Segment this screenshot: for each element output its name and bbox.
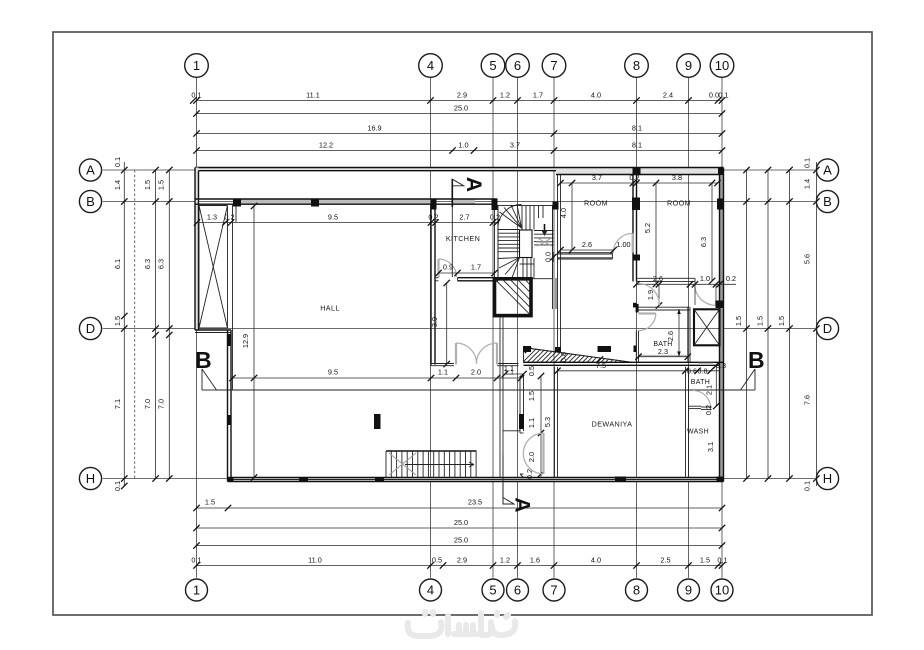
svg-text:6.3: 6.3 xyxy=(143,259,152,269)
dimension row bottom-3 (25.0) xyxy=(193,536,725,549)
svg-text:B: B xyxy=(823,194,832,209)
svg-text:1.4: 1.4 xyxy=(113,180,122,190)
room label WASH xyxy=(687,429,709,436)
svg-text:A: A xyxy=(823,162,832,177)
room label ROOM left xyxy=(584,199,608,208)
svg-text:1.0: 1.0 xyxy=(700,274,710,283)
svg-text:D: D xyxy=(823,321,832,336)
staircase (spiral with landing) xyxy=(498,204,554,278)
column B-wall 1 xyxy=(233,199,241,207)
straight staircase at hall bottom xyxy=(386,451,477,478)
kitchen right wall (grid 5) xyxy=(495,210,499,278)
dimension 5.2 vertical (grid8) xyxy=(643,180,659,287)
wall jog at grid D left xyxy=(195,330,231,333)
room2 bottom wall xyxy=(637,278,696,281)
svg-text:1.5: 1.5 xyxy=(777,316,786,326)
section marker B left xyxy=(195,347,217,390)
svg-text:A: A xyxy=(462,177,485,192)
ramp column left xyxy=(523,346,531,352)
svg-text:HALL: HALL xyxy=(320,304,340,313)
svg-text:1.5: 1.5 xyxy=(527,391,536,401)
svg-text:1.00: 1.00 xyxy=(616,240,630,249)
svg-text:6.3: 6.3 xyxy=(157,259,166,269)
dimension rooms top (3.7 0.2 3.8) xyxy=(557,173,720,186)
dimension 1.9 vertical xyxy=(646,281,662,309)
corridor double door xyxy=(520,431,544,478)
column grid5-B xyxy=(492,199,498,211)
hall interior dim 12.9 vertical xyxy=(241,203,257,481)
dimension 2.1 rotated xyxy=(705,385,714,395)
svg-text:7: 7 xyxy=(550,58,557,73)
grid line D (horizontal) xyxy=(103,328,815,330)
svg-text:2.6: 2.6 xyxy=(666,331,675,341)
ramp column right xyxy=(598,346,612,352)
svg-text:8.1: 8.1 xyxy=(632,141,642,150)
svg-text:10: 10 xyxy=(715,58,729,73)
svg-text:A: A xyxy=(511,497,534,512)
svg-text:1.5: 1.5 xyxy=(700,556,710,565)
svg-text:3.9: 3.9 xyxy=(430,317,439,327)
dimension 5.3 vertical xyxy=(543,367,555,427)
corridor door arc at grid 8 xyxy=(639,284,660,306)
room1 door arc (1.00) xyxy=(613,233,633,252)
grid bubble D left xyxy=(79,317,101,339)
svg-text:1.5: 1.5 xyxy=(143,180,152,190)
column bottom 4 xyxy=(717,477,724,483)
svg-text:H: H xyxy=(823,471,832,486)
dimension 6.3 vertical (room2) xyxy=(699,180,715,284)
column grid8 cap xyxy=(633,255,640,261)
dimension 3.9 vertical (grid4 lower) xyxy=(430,280,450,367)
grid bubble H right xyxy=(816,467,838,489)
grid bubble 5 top xyxy=(481,54,505,78)
dimension row bottom-1 (1.5 23.5) xyxy=(193,498,725,512)
exterior wall bottom (grid H) xyxy=(228,478,724,482)
dimension labels corridor right (1.5 1.1 2.0 0.2) xyxy=(525,391,536,479)
dimension column left-1 (0.1 1.4 6.1 1.5 7.1) xyxy=(113,157,128,491)
grid line 7 (vertical) xyxy=(553,78,555,578)
svg-text:0.2: 0.2 xyxy=(224,213,234,222)
section line B-B (horizontal) xyxy=(217,389,741,391)
drawing sheet border frame xyxy=(53,32,872,615)
column grid4-B xyxy=(431,199,437,210)
svg-text:9.5: 9.5 xyxy=(328,368,338,377)
bath1 top wall xyxy=(636,307,689,310)
room label KITCHEN xyxy=(446,234,480,243)
svg-text:6.3: 6.3 xyxy=(699,237,708,247)
grid line 5 (vertical) xyxy=(492,78,494,578)
dimension row top-3 (16.9 8.1) xyxy=(193,124,725,137)
svg-text:2.1: 2.1 xyxy=(705,385,714,395)
svg-text:1: 1 xyxy=(193,583,200,598)
room label ROOM right xyxy=(667,199,691,208)
left shaft with X cross xyxy=(199,206,228,329)
dimension room1 width 2.6 xyxy=(557,240,630,253)
svg-text:11.1: 11.1 xyxy=(306,91,320,100)
svg-text:7.6: 7.6 xyxy=(803,395,812,405)
svg-text:1.6: 1.6 xyxy=(530,556,540,565)
kitchen door arc xyxy=(439,259,457,277)
grid bubble H left xyxy=(79,467,101,489)
svg-text:6.1: 6.1 xyxy=(113,259,122,269)
dimension dewaniya 7.5 xyxy=(554,361,719,374)
dimension row bottom-4 (11.0 0.5 2.9 1.2 1.6 4.0 2.5 1.5) xyxy=(191,556,727,569)
dimension line corridor right xyxy=(538,373,544,478)
dimension row bottom-2 (25.0) xyxy=(193,518,725,531)
svg-text:1.5: 1.5 xyxy=(756,316,765,326)
stair right wall (grid 7) xyxy=(553,206,557,310)
svg-text:12.2: 12.2 xyxy=(319,141,333,150)
section marker B right xyxy=(741,347,765,390)
svg-text:5.6: 5.6 xyxy=(803,254,812,264)
grid line 9 (vertical) xyxy=(688,78,690,578)
svg-text:0.1: 0.1 xyxy=(803,481,812,491)
column left-lower xyxy=(227,415,232,425)
svg-text:2.4: 2.4 xyxy=(663,91,673,100)
svg-text:4.0: 4.0 xyxy=(591,556,601,565)
dimension hall south (9.5 1.1 2.0 1.1) xyxy=(229,368,524,382)
svg-text:0.6: 0.6 xyxy=(559,352,568,362)
dimension row top-1 (11.1 2.9 1.2 1.7 4.0 2.4) xyxy=(190,91,728,104)
exterior wall right (grid 10) xyxy=(720,168,724,482)
grid bubble B left xyxy=(79,190,101,212)
grid bubble D right xyxy=(816,317,838,339)
svg-text:2.9: 2.9 xyxy=(457,91,467,100)
svg-text:23.5: 23.5 xyxy=(468,498,482,507)
corridor wall upper (x520) xyxy=(520,376,524,431)
svg-text:1.9: 1.9 xyxy=(646,290,655,300)
dewaniya left wall (grid 7) xyxy=(555,367,558,478)
svg-text:0.1: 0.1 xyxy=(113,157,122,167)
svg-text:6: 6 xyxy=(514,583,521,598)
svg-text:B: B xyxy=(195,347,212,373)
svg-text:7.5: 7.5 xyxy=(596,361,606,370)
column grid8-A xyxy=(633,167,641,175)
svg-text:1.1: 1.1 xyxy=(504,364,514,373)
svg-text:0.2: 0.2 xyxy=(726,274,736,283)
dimension column left-3 (1.5 6.3 7.0) xyxy=(157,167,173,482)
column left-D xyxy=(227,334,232,346)
rooms left wall (grid 7 side) xyxy=(558,175,561,353)
svg-text:0.1: 0.1 xyxy=(718,91,728,100)
hall south wall segments xyxy=(431,364,519,366)
kitchen left wall (grid 4) xyxy=(431,204,435,364)
svg-text:1.4: 1.4 xyxy=(803,179,812,189)
svg-text:1.2: 1.2 xyxy=(500,556,510,565)
svg-text:12.9: 12.9 xyxy=(241,334,250,348)
svg-text:5.2: 5.2 xyxy=(643,223,652,233)
interior wall grid B with window bands xyxy=(195,199,497,204)
svg-text:ROOM: ROOM xyxy=(584,199,608,208)
svg-text:1.7: 1.7 xyxy=(471,263,481,272)
svg-text:3.1: 3.1 xyxy=(706,442,715,452)
dimension 1.1 left of wall xyxy=(502,364,527,377)
dimension 0.2 rotated wash xyxy=(704,405,713,415)
svg-text:4.0: 4.0 xyxy=(559,208,568,218)
bath1 left wall xyxy=(636,331,638,363)
dimension column right-3 (1.5) xyxy=(777,167,793,482)
corridor lower wall (x503) xyxy=(500,316,503,504)
svg-text:2.0: 2.0 xyxy=(471,368,481,377)
room label BATH 1 xyxy=(653,341,672,348)
svg-text:1.5: 1.5 xyxy=(113,316,122,326)
svg-text:0.2: 0.2 xyxy=(704,405,713,415)
svg-text:7.1: 7.1 xyxy=(113,399,122,409)
grid line 10 (vertical) xyxy=(721,78,723,578)
dimension column right-4 (0.1 1.4 5.6 7.6 0.1) xyxy=(803,158,820,491)
svg-text:1.1: 1.1 xyxy=(527,418,536,428)
grid bubble A right xyxy=(816,159,838,181)
dimension 0.6 0.8 labels xyxy=(687,361,726,375)
svg-text:3.7: 3.7 xyxy=(510,141,520,150)
svg-text:2.9: 2.9 xyxy=(457,556,467,565)
grid line B (horizontal) xyxy=(103,201,815,203)
svg-text:1.5: 1.5 xyxy=(157,180,166,190)
svg-text:B: B xyxy=(748,347,765,373)
bath1 right wall xyxy=(688,307,690,362)
grid line 6 (vertical) xyxy=(517,78,519,578)
grid bubble A left xyxy=(79,159,101,181)
dimension column left-2 (1.5 6.3 7.0) xyxy=(143,167,159,482)
svg-text:1.7: 1.7 xyxy=(533,91,543,100)
grid bubble 7 bottom xyxy=(543,579,565,601)
dimension 0.0 at stair xyxy=(544,252,557,262)
bath2/wash divider wall xyxy=(688,406,701,408)
svg-text:8: 8 xyxy=(633,58,640,73)
svg-text:4: 4 xyxy=(427,583,434,598)
svg-text:1.1: 1.1 xyxy=(438,368,448,377)
grid line 8 (vertical) xyxy=(636,78,638,578)
room label HALL xyxy=(320,304,340,313)
svg-text:0.1: 0.1 xyxy=(191,91,201,100)
bath1 left wall bottom cap xyxy=(634,346,637,353)
bath1 door arc xyxy=(639,313,656,330)
svg-text:25.0: 25.0 xyxy=(454,518,468,527)
svg-text:0.1: 0.1 xyxy=(113,481,122,491)
dimension corridor (2.6 1.0 0.2) xyxy=(633,274,736,288)
room label BATH 2 xyxy=(691,379,710,386)
wash left wall xyxy=(686,367,689,478)
svg-text:0.0: 0.0 xyxy=(544,252,553,262)
grid line A (horizontal) xyxy=(103,169,815,171)
exterior wall top (grid A) xyxy=(195,168,724,175)
svg-text:9: 9 xyxy=(685,58,692,73)
svg-text:H: H xyxy=(86,471,95,486)
hall center column xyxy=(374,414,381,429)
svg-text:0.5: 0.5 xyxy=(527,366,536,376)
svg-text:2.3: 2.3 xyxy=(658,347,668,356)
svg-text:11.0: 11.0 xyxy=(308,556,322,565)
column B-wall 2 xyxy=(311,199,319,207)
column grid8-B xyxy=(632,198,640,211)
hall left wall (below B) xyxy=(233,204,237,390)
svg-text:4.0: 4.0 xyxy=(591,91,601,100)
svg-text:1.5: 1.5 xyxy=(205,498,215,507)
svg-text:0.9: 0.9 xyxy=(443,263,453,272)
room1 bottom wall xyxy=(558,253,613,259)
kitchen bottom wall xyxy=(435,278,498,281)
ramp hatched wedge xyxy=(518,347,648,367)
grid bubble 10 bottom xyxy=(711,579,733,601)
column grid7 at ramp xyxy=(555,347,561,352)
svg-text:0.8: 0.8 xyxy=(697,366,707,375)
grid bubble 9 bottom xyxy=(678,579,700,601)
column grid10-B xyxy=(717,199,724,210)
svg-text:0.3: 0.3 xyxy=(716,361,726,370)
svg-text:1.0: 1.0 xyxy=(458,141,468,150)
svg-text:1.5: 1.5 xyxy=(734,316,743,326)
svg-text:0.5: 0.5 xyxy=(432,556,442,565)
watermark Arabic logo xyxy=(408,612,516,636)
svg-text:2.0: 2.0 xyxy=(527,452,536,462)
svg-text:2.7: 2.7 xyxy=(459,213,469,222)
elevator shaft with hatch xyxy=(495,279,532,316)
svg-text:10: 10 xyxy=(715,583,729,598)
grid bubble 10 top xyxy=(710,54,734,78)
grid bubble 5 bottom xyxy=(482,579,504,601)
svg-text:3.7: 3.7 xyxy=(592,173,602,182)
svg-text:2.6: 2.6 xyxy=(582,240,592,249)
section line A (vertical) xyxy=(451,207,453,277)
svg-text:5: 5 xyxy=(489,583,496,598)
exterior wall left lower (D to H) xyxy=(228,330,232,482)
svg-text:25.0: 25.0 xyxy=(454,104,468,113)
dimension kitchen width (0.2 2.7 0.2) xyxy=(428,213,500,222)
svg-text:16.9: 16.9 xyxy=(367,124,381,133)
svg-text:9: 9 xyxy=(685,583,692,598)
svg-text:7: 7 xyxy=(550,583,557,598)
svg-text:DEWANIYA: DEWANIYA xyxy=(592,420,633,429)
grid bubble 7 top xyxy=(542,54,566,78)
column bottom left corner xyxy=(228,477,234,482)
dimension 2.1 line xyxy=(713,362,719,409)
column grid10-A xyxy=(718,168,724,176)
corridor threshold line xyxy=(503,430,520,432)
dashed line left xyxy=(134,170,136,479)
room2 door arc (1.0) xyxy=(695,284,716,305)
svg-text:8.1: 8.1 xyxy=(632,124,642,133)
svg-text:25.0: 25.0 xyxy=(454,536,468,545)
dimension kitchen door (0.9 1.7) xyxy=(435,263,497,277)
grid bubble 6 bottom xyxy=(507,579,529,601)
wash door arc xyxy=(693,390,712,409)
grid bubble 8 bottom xyxy=(626,579,648,601)
dewaniya top wall xyxy=(524,362,724,365)
room divider wall (grid 8) xyxy=(633,175,637,282)
hall double door xyxy=(456,343,497,365)
dimension bath1 2.3 xyxy=(635,347,691,360)
bath1 left wall cap xyxy=(636,304,639,313)
svg-text:7.0: 7.0 xyxy=(143,399,152,409)
dimension column right-2 (1.5) xyxy=(756,167,772,482)
exterior wall left (grid 1) xyxy=(195,168,199,331)
svg-text:3.8: 3.8 xyxy=(672,173,682,182)
grid line 4 (vertical) xyxy=(430,78,432,578)
dimension 3.1 rotated xyxy=(706,442,715,452)
room label DEWANIYA xyxy=(592,420,633,429)
grid bubble 4 bottom xyxy=(420,579,442,601)
grid bubble 9 top xyxy=(677,54,701,78)
bath1 bottom window band xyxy=(639,355,687,357)
svg-text:1: 1 xyxy=(193,58,200,73)
dimension row top-4 (12.2 1.0 3.7 8.1) xyxy=(193,141,725,154)
dimension hall top (1.3 0.2 9.5) xyxy=(194,213,500,226)
column grid7-B xyxy=(553,202,559,210)
grid bubble 1 bottom xyxy=(186,579,208,601)
wall stub grid8 south xyxy=(633,303,637,308)
grid bubble 1 top xyxy=(185,54,209,78)
section marker A bottom xyxy=(503,455,534,513)
column right-wall-mid xyxy=(716,301,724,309)
svg-text:1.2: 1.2 xyxy=(500,91,510,100)
dimension row top-2 (25.0) xyxy=(193,104,725,117)
grid line H (horizontal) xyxy=(103,478,815,480)
grid line 1 (vertical) xyxy=(196,78,198,578)
svg-text:4: 4 xyxy=(427,58,434,73)
dimension column right-1 (1.5) xyxy=(734,167,750,482)
right shaft with X cross xyxy=(694,309,720,345)
column bottom 1 xyxy=(299,477,308,482)
svg-text:5.3: 5.3 xyxy=(543,417,552,427)
svg-text:D: D xyxy=(86,321,95,336)
column bottom 2 xyxy=(375,477,384,482)
dimension 0.5 rotated xyxy=(527,366,536,376)
svg-text:2.5: 2.5 xyxy=(660,556,670,565)
grid bubble 8 top xyxy=(625,54,649,78)
svg-text:ROOM: ROOM xyxy=(667,199,691,208)
svg-text:6: 6 xyxy=(514,58,521,73)
svg-text:8: 8 xyxy=(633,583,640,598)
column bottom 3 xyxy=(615,477,626,483)
svg-text:1.3: 1.3 xyxy=(207,213,217,222)
svg-text:5: 5 xyxy=(489,58,496,73)
section marker A top xyxy=(452,177,485,207)
svg-text:KITCHEN: KITCHEN xyxy=(446,234,480,243)
grid bubble 6 top xyxy=(506,54,530,78)
grid bubble 4 top xyxy=(419,54,443,78)
svg-text:A: A xyxy=(86,162,95,177)
svg-text:B: B xyxy=(86,194,95,209)
svg-text:0.1: 0.1 xyxy=(717,556,727,565)
svg-text:WASH: WASH xyxy=(687,429,709,436)
svg-text:9.5: 9.5 xyxy=(328,213,338,222)
dimension room1 height 4.0 xyxy=(559,180,575,253)
svg-text:0.1: 0.1 xyxy=(803,158,812,168)
grid bubble B right xyxy=(816,190,838,212)
svg-text:7.0: 7.0 xyxy=(157,399,166,409)
svg-text:0.1: 0.1 xyxy=(191,556,201,565)
dimension bath1 2.6 vertical (arrows) xyxy=(666,309,681,357)
corridor wall column xyxy=(519,414,524,429)
extension line right door xyxy=(692,280,698,305)
